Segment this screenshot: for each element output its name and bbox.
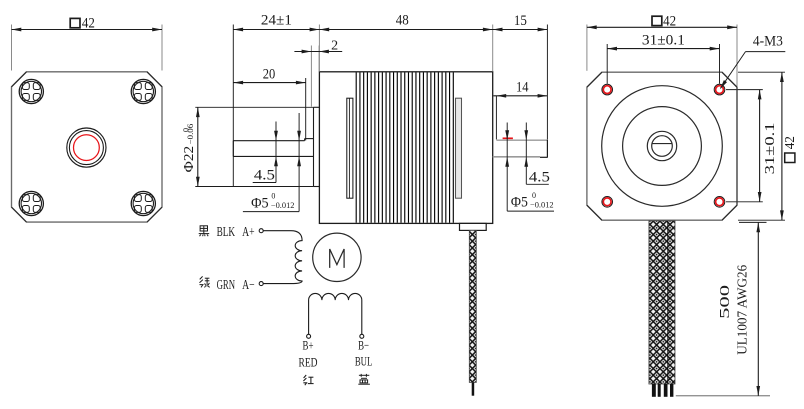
dimension 14: [493, 95, 547, 97]
front shaft (side view): [233, 140, 304, 142]
svg-text:500: 500: [717, 285, 732, 319]
svg-text:24±1: 24±1: [261, 13, 292, 29]
dimension 31 top: [606, 44, 608, 84]
svg-text:15: 15: [514, 13, 527, 29]
svg-text:UL1007 AWG26: UL1007 AWG26: [735, 265, 750, 355]
svg-text:42: 42: [663, 13, 676, 29]
phi22 dimension: [197, 107, 199, 186]
svg-text:4.5: 4.5: [254, 168, 275, 184]
dim phi5 rear: [506, 123, 508, 212]
svg-text:4-M3: 4-M3: [753, 34, 783, 50]
dimension 31 right: [726, 89, 763, 91]
svg-text:Φ5: Φ5: [511, 195, 528, 211]
inner circle: [623, 107, 702, 186]
left view square-42 dimension: [11, 25, 13, 71]
middle view: motor body outline: [319, 72, 492, 224]
terminal A+: [259, 229, 263, 233]
svg-text:Φ5: Φ5: [251, 195, 269, 211]
shaft circles: [647, 131, 676, 160]
front shaft boss circles: [67, 128, 106, 167]
right view square-42 top dimension: [586, 25, 588, 71]
svg-text:42: 42: [782, 136, 797, 149]
chamfer overlays right plate: [587, 72, 602, 87]
svg-text:31±0.1: 31±0.1: [642, 33, 685, 49]
dim 4.5 front: [275, 122, 277, 183]
M3 hole top-left: [602, 84, 613, 95]
left view: motor front plate outline: [12, 72, 163, 222]
dimension 2 (boss): [310, 46, 312, 107]
rear shaft: [495, 96, 497, 140]
svg-text:14: 14: [516, 79, 529, 95]
screw hole top-left: [19, 79, 43, 103]
svg-text:42: 42: [82, 15, 95, 31]
pilot boss (2mm): [313, 107, 315, 186]
svg-text:48: 48: [396, 13, 409, 29]
svg-text:GRN: GRN: [217, 277, 236, 292]
svg-text:2: 2: [331, 37, 338, 52]
svg-text:0: 0: [532, 191, 536, 200]
dimension 500: [739, 221, 767, 223]
red shaft circle: [74, 135, 100, 161]
M3 hole bottom-right: [714, 197, 725, 208]
svg-text:A+: A+: [242, 224, 255, 239]
svg-text:A−: A−: [242, 277, 255, 292]
right plate right edge (dark): [736, 87, 738, 205]
svg-text:0: 0: [271, 191, 275, 200]
svg-text:BLK: BLK: [217, 224, 236, 239]
svg-text:B−: B−: [358, 339, 369, 353]
svg-text:RED: RED: [299, 355, 318, 369]
dim 4.5 rear: [525, 123, 527, 185]
M3 hole top-right: [714, 84, 725, 95]
main horizontal dimension chain 24/48/15: [232, 25, 234, 187]
svg-text:BUL: BUL: [355, 355, 373, 369]
svg-text:B+: B+: [303, 339, 314, 353]
screw hole bottom-right: [131, 191, 155, 215]
shaft flat chord: [652, 143, 672, 145]
right clamp bar: [456, 98, 462, 198]
svg-text:20: 20: [263, 66, 276, 82]
label hei BLK A+: [199, 226, 210, 236]
four lead wires: [652, 384, 656, 397]
phase A coil: [263, 231, 302, 284]
lamination fins: [356, 72, 453, 222]
terminal A-: [259, 282, 263, 286]
cable braid right view: [649, 221, 675, 384]
chamfer overlays left plate: [12, 72, 27, 87]
phase B coil: [309, 293, 362, 334]
dimension 20: [305, 78, 307, 140]
screw hole bottom-left: [19, 191, 43, 215]
lead wire middle view: [472, 382, 475, 395]
left clamp bar: [347, 98, 353, 198]
svg-text:31±0.1: 31±0.1: [762, 122, 777, 174]
big mounting circle: [602, 86, 723, 207]
cable clamp middle view: [460, 223, 487, 230]
terminal B-: [360, 334, 364, 338]
dim phi5 front: [298, 113, 300, 212]
svg-text:−0.012: −0.012: [530, 201, 554, 210]
svg-text:−0.06: −0.06: [186, 124, 195, 145]
phi22 extension lines: [195, 106, 313, 108]
right view: rear plate outline: [587, 72, 737, 220]
red defpoint tick: [503, 137, 513, 139]
label lv GRN A-: [200, 276, 210, 287]
M3 hole bottom-left: [602, 197, 613, 208]
screw hole top-right: [131, 79, 155, 103]
cable braid middle view: [469, 230, 476, 382]
svg-text:−0.012: −0.012: [271, 201, 295, 210]
motor symbol M: [313, 233, 361, 281]
terminal B+: [307, 334, 311, 338]
svg-text:4.5: 4.5: [529, 169, 550, 185]
svg-text:Φ22: Φ22: [181, 146, 196, 173]
dimension square-42 right: [738, 71, 785, 73]
